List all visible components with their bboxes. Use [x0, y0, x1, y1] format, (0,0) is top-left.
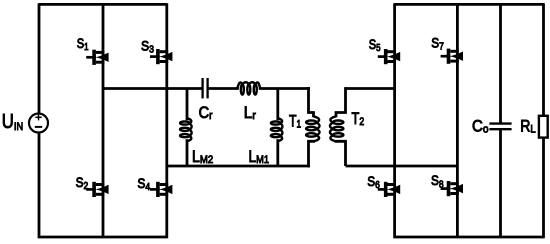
svg-text:T1: T1	[289, 113, 301, 131]
wire: U_IN branch upper	[38, 3, 41, 112]
wire: T2 secondary lead bottom	[336, 141, 346, 167]
wire: T2 secondary lead top	[336, 87, 346, 117]
wire: L_r to T1 top	[259, 87, 310, 90]
svg-text:Cr: Cr	[199, 104, 213, 122]
wire: right bridge top rail	[395, 3, 544, 6]
wire: right bridge bottom rail	[395, 236, 544, 239]
switch S6	[378, 182, 400, 197]
transformer winding T2	[330, 116, 343, 141]
wire: R_L branch upper	[542, 3, 545, 116]
svg-text:S1: S1	[77, 36, 89, 53]
resistor R_L	[539, 116, 548, 138]
wire: leg S1/S2	[102, 4, 105, 237]
wire: L_M1 branch upper	[276, 89, 279, 121]
svg-text:Lr: Lr	[244, 104, 256, 122]
svg-text:S2: S2	[76, 175, 89, 192]
wire: C_r to L_r	[209, 87, 239, 90]
wire: left bridge top rail	[39, 3, 167, 6]
capacitor C_o	[489, 124, 511, 130]
inductor L_M1	[271, 118, 283, 141]
svg-text:S4: S4	[137, 176, 150, 193]
switch S7	[441, 49, 463, 64]
svg-text:LM2: LM2	[192, 148, 213, 166]
switch S3	[150, 49, 172, 64]
svg-text:UIN: UIN	[2, 111, 23, 133]
wire: C_o branch lower	[499, 129, 502, 237]
inductor L_r	[237, 82, 260, 94]
svg-text:Co: Co	[472, 117, 489, 135]
wire: T2 bottom to S7/S8 midpoint (crosses S5/S6 leg)	[346, 165, 458, 168]
wire: tank bottom rail	[167, 165, 310, 168]
source U_IN	[29, 114, 48, 133]
svg-text:S5: S5	[369, 37, 381, 54]
svg-text:RL: RL	[520, 117, 536, 135]
wire: leg S3/S4	[165, 3, 168, 238]
wire: T1 primary lead top	[309, 87, 314, 117]
wire: T2 top to S5/S6 midpoint	[346, 87, 395, 90]
switch S1	[86, 50, 108, 65]
wire: tank top from S1/S2 midpoint to C_r	[103, 87, 202, 90]
wire: L_M2 branch upper	[186, 89, 189, 121]
wire: left bridge bottom rail	[39, 236, 167, 239]
wire: L_M2 branch lower	[186, 139, 189, 166]
switch S4	[150, 182, 172, 197]
wire: T1 primary lead bottom	[309, 141, 314, 168]
wire: leg S5/S6	[393, 3, 396, 238]
svg-text:S6: S6	[367, 174, 380, 191]
wire: R_L branch lower	[542, 138, 545, 239]
capacitor C_r	[203, 78, 208, 98]
svg-text:S3: S3	[141, 38, 154, 55]
switch S8	[441, 181, 463, 196]
wire: L_M1 branch lower	[276, 139, 279, 166]
switch S5	[378, 49, 400, 64]
transformer winding T1	[306, 116, 319, 141]
wire: leg S7/S8	[456, 4, 459, 237]
svg-text:T2: T2	[352, 110, 365, 128]
wire: U_IN branch lower	[38, 134, 41, 239]
svg-text:S8: S8	[431, 173, 444, 190]
wire: C_o branch upper	[499, 4, 502, 123]
svg-text:LM1: LM1	[249, 148, 270, 166]
inductor L_M2	[180, 118, 192, 141]
switch S2	[86, 182, 108, 197]
svg-text:S7: S7	[431, 35, 444, 52]
